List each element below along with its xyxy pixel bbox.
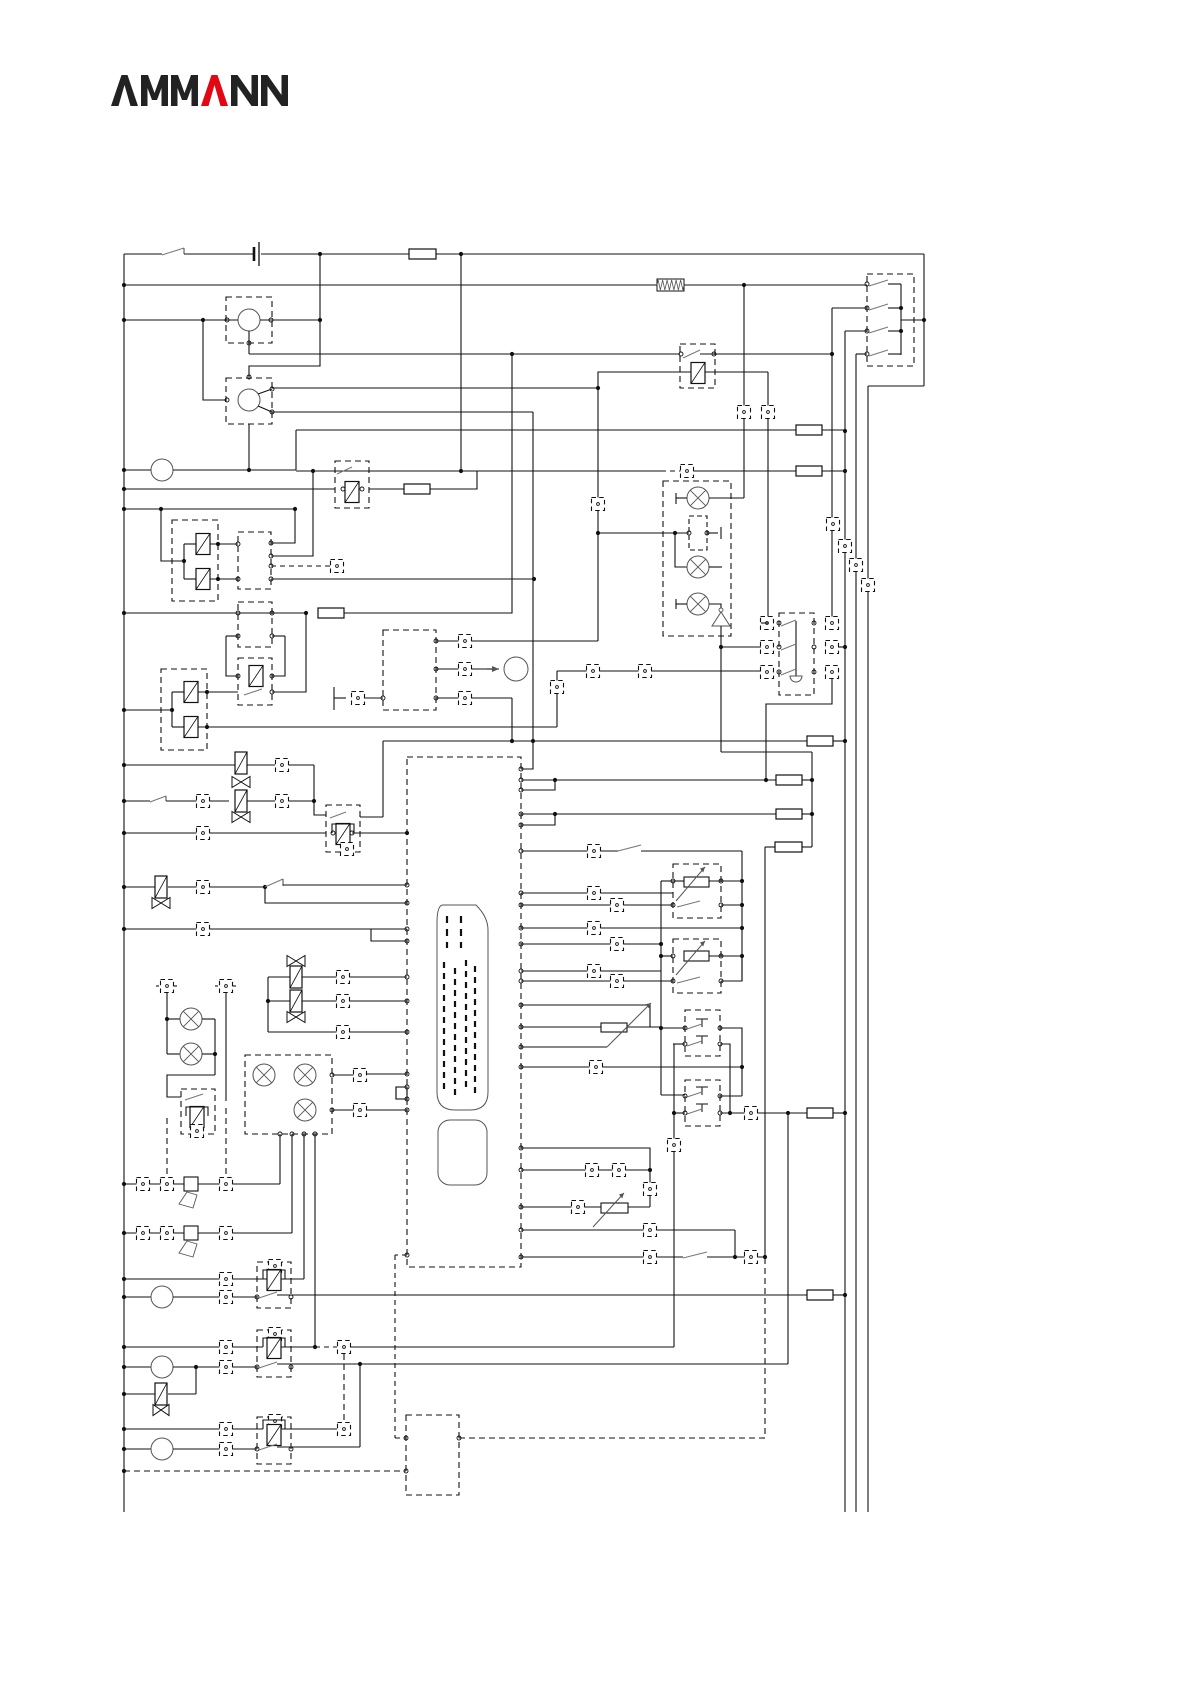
- wire ignition pin3 to bus B: [845, 330, 867, 332]
- wire row 354 to relay K2: [249, 353, 680, 355]
- wire ign contact stub y331: [888, 330, 901, 332]
- ECU connector pin columns: [446, 916, 448, 948]
- switch relay H contact: [259, 1292, 277, 1298]
- wire 727 up to row 671: [556, 671, 558, 727]
- node fuse junction: [459, 252, 463, 256]
- wire bus to starter: [124, 469, 151, 471]
- wire light row1 left: [761, 622, 768, 624]
- potentiometer R2: [676, 867, 709, 901]
- node ignition feed: [922, 318, 926, 322]
- wire bus A: [831, 308, 833, 623]
- wire 315 down: [314, 1134, 316, 1347]
- connector X bus B: [839, 540, 852, 553]
- wire box B out 556: [271, 471, 313, 556]
- wire ECU pair 814-825: [519, 812, 523, 816]
- switch light contact y672: [781, 669, 796, 675]
- wire T1b left: [673, 1043, 685, 1045]
- sender P4 circle: [151, 1438, 173, 1460]
- wire lamp H3 T-bar: [676, 603, 687, 605]
- wire starter to node: [173, 469, 296, 471]
- wire box B dashed out 566: [271, 565, 331, 567]
- node battery junction: [318, 252, 322, 256]
- connector X row471: [681, 465, 694, 478]
- wire 650 down: [649, 1170, 651, 1207]
- wire box B out 543 up to row 509: [271, 509, 295, 543]
- lamp H3: [687, 593, 709, 615]
- switch row 1257: [683, 1252, 707, 1258]
- lamp H7: [294, 1064, 316, 1086]
- wire flasher branch down to lamp H2: [675, 533, 687, 567]
- wire row 885 to ECU: [283, 884, 407, 886]
- connector jumper: [396, 1087, 407, 1099]
- relay H box: [257, 1262, 291, 1308]
- connector X 598-504: [592, 498, 605, 511]
- wire row 1295 long: [277, 1294, 807, 1296]
- potentiometer R3: [676, 941, 709, 975]
- connector X 337-566: [331, 560, 344, 573]
- switch relay D contact: [244, 689, 262, 695]
- connector X bus A: [827, 518, 840, 531]
- coil E1: [184, 682, 198, 703]
- wire ECU row 905: [519, 903, 523, 907]
- wire fuse F3 to bus B: [822, 470, 845, 472]
- node 354-512: [510, 352, 514, 356]
- wire battery row mid: [184, 253, 253, 255]
- wire Y4 to ECU: [302, 976, 407, 978]
- wire lamp H2 arrow: [709, 566, 722, 568]
- relay D box: [238, 658, 272, 705]
- wire 280 down: [279, 1134, 281, 1184]
- coil E2: [184, 717, 198, 738]
- switch relay K3 contact: [337, 467, 352, 474]
- wire row 1279: [124, 1278, 268, 1280]
- wire 598 lower: [597, 533, 599, 641]
- wire row 801: [124, 800, 150, 802]
- coil A2: [196, 569, 210, 590]
- flasher relay small box: [689, 516, 707, 550]
- wire 306 down to relay D switch: [272, 613, 306, 692]
- wire ignition pin2 to bus A: [832, 307, 867, 309]
- switch light contact y647: [781, 644, 796, 650]
- relay J coil: [267, 1425, 281, 1446]
- relay F coil: [336, 824, 350, 845]
- valve Y5 solenoid: [290, 990, 302, 1012]
- wire radio pin1 row 641: [436, 640, 598, 642]
- potentiometer R2 box: [673, 864, 721, 918]
- relay K1 circle: [238, 309, 260, 331]
- wire radio pin3 down to 741: [511, 698, 513, 741]
- wire row 1394 valve: [124, 1393, 155, 1395]
- relay K1 box: [226, 297, 272, 343]
- node 285-744: [742, 283, 746, 287]
- wire fuse F5 up to vertical 512: [344, 354, 512, 613]
- thermo contact T1b: [696, 1036, 708, 1044]
- relay F box: [326, 805, 360, 852]
- switch light contact y623: [781, 620, 796, 626]
- wire row 430: [296, 429, 796, 431]
- wire bus C: [855, 354, 857, 1512]
- wire 801 node to relay F: [314, 765, 326, 815]
- wire ign contact stub y308: [888, 307, 901, 309]
- wire row 509: [124, 508, 295, 510]
- wire ECU row 1047 wiper: [519, 1045, 523, 1049]
- valve Y4 bowtie top: [287, 956, 305, 967]
- relay G box: [181, 1089, 215, 1134]
- switch relay J contact: [259, 1444, 277, 1450]
- fuse F2: [796, 425, 822, 435]
- wire antenna to radio: [364, 697, 383, 699]
- relay K2 coil: [691, 363, 705, 384]
- wire fuse F2 to bus B: [822, 429, 845, 431]
- thermo switch box T1: [685, 1010, 720, 1056]
- wire ECU row 928: [519, 926, 523, 930]
- connector X bus C: [850, 559, 863, 572]
- fuse F1: [409, 249, 436, 259]
- wire K1 left node down to alternator: [203, 320, 226, 400]
- switch in pot box2: [677, 977, 700, 983]
- connector X 226-986: [220, 980, 233, 993]
- wire ECU row 1067: [519, 1065, 523, 1069]
- lamp H8: [294, 1099, 316, 1121]
- wire H7 out to ECU: [332, 1074, 354, 1076]
- wire 1347 solid right: [350, 1346, 674, 1348]
- thermo contact T2b: [696, 1104, 708, 1112]
- horn B2: [179, 1226, 198, 1257]
- wire ECU row 944: [519, 942, 523, 946]
- wire ECU row 971: [519, 969, 523, 973]
- wire radio pin2 to gauge: [436, 668, 496, 670]
- wire bracket left: [226, 635, 238, 637]
- wire T2a left: [661, 1094, 685, 1096]
- relay K2 box: [680, 344, 715, 388]
- valve Y4 solenoid: [290, 966, 302, 988]
- wire row 1449: [124, 1448, 151, 1450]
- dashed from box B1 right: [459, 1437, 765, 1439]
- potentiometer R5: [519, 1025, 523, 1029]
- switch relay I contact: [259, 1362, 277, 1368]
- wire alternator D+ output: [258, 389, 272, 394]
- wire box A coil bus: [183, 544, 185, 579]
- wire vertical 533: [532, 412, 534, 741]
- wire row 1364 long: [277, 1363, 788, 1365]
- wire ECU row 893: [519, 891, 523, 895]
- switch contact ign y308: [869, 304, 888, 310]
- connector X light L3: [761, 666, 774, 679]
- wire vertical 598 down: [597, 388, 599, 533]
- module box B1: [406, 1415, 459, 1495]
- wire ignition pin4 to bus C: [856, 353, 867, 355]
- valve Y6 solenoid: [155, 1383, 167, 1405]
- fuse F4: [404, 484, 430, 494]
- wire vertical 744: [743, 285, 745, 498]
- wire down to relay G: [167, 1075, 215, 1097]
- wire 735 down: [734, 1230, 736, 1257]
- wire relay I bracket: [263, 1338, 285, 1347]
- ECU pin loop 1087-1099: [396, 1087, 407, 1099]
- connector X relay F: [341, 843, 354, 856]
- potentiometer R4: [593, 1193, 628, 1227]
- gauge arrow: [487, 668, 499, 670]
- wire 721 to 812: [721, 751, 812, 753]
- wire lamp H1 T-bar: [676, 497, 687, 499]
- wire ECU row 1148: [519, 1146, 523, 1150]
- wire T2b right long: [720, 1112, 807, 1114]
- connector X relay G: [191, 1125, 204, 1138]
- switch relay G contact: [185, 1094, 203, 1100]
- valve Y3 bowtie: [152, 898, 170, 909]
- wire row 388: [272, 387, 598, 389]
- horn B1: [179, 1177, 198, 1208]
- wire ECU row 1170: [519, 1168, 523, 1172]
- contactor box A: [172, 520, 218, 601]
- wire relay H bracket: [263, 1270, 285, 1279]
- switch S1 main: [162, 248, 184, 255]
- wire row 887: [124, 886, 155, 888]
- wire jumper 929-941: [371, 929, 407, 941]
- radio box A2: [383, 630, 436, 710]
- wire battery to K1 node: [319, 254, 321, 320]
- node 598-533: [596, 531, 600, 535]
- wire lamp H1 feed: [709, 497, 744, 499]
- connector X light L2: [761, 641, 774, 654]
- valve Y1 solenoid: [235, 790, 247, 812]
- connector X 768-412: [762, 406, 775, 419]
- wire E1 to relay D: [198, 691, 238, 693]
- relay I coil: [267, 1338, 281, 1359]
- wire collector 742: [741, 851, 743, 980]
- wire K3 to fuse F4: [369, 488, 404, 490]
- dash stubs: [156, 985, 160, 987]
- switch relay K2 contact: [683, 350, 700, 358]
- wire vertical 461: [460, 254, 462, 471]
- wire bus B: [844, 331, 846, 1512]
- wire 509 down to coil box A feed: [161, 509, 184, 561]
- wire lamp pair loop: [166, 993, 168, 1054]
- valve Y6 bowtie: [153, 1405, 169, 1416]
- wire ign contact stub y354: [888, 353, 901, 355]
- dashed link left: [166, 1118, 168, 1178]
- valve Y2 solenoid: [235, 752, 247, 774]
- wire 533 branch to ECU pin: [521, 741, 533, 769]
- connector X light R1: [826, 617, 839, 630]
- connector X 744-412: [738, 406, 751, 419]
- valve pair bracket: [267, 977, 269, 1032]
- connector X light R3: [826, 666, 839, 679]
- node 461-471: [459, 469, 463, 473]
- control box B: [238, 532, 271, 589]
- valve Y3 solenoid: [155, 876, 167, 898]
- starter M1 circle: [151, 459, 173, 481]
- dashed ECU pin to box B1: [395, 1254, 407, 1256]
- light switch S3 box: [779, 613, 814, 695]
- wire T1b right: [720, 1044, 730, 1113]
- wire A2 out: [210, 578, 238, 580]
- battery G1: [254, 242, 259, 266]
- wire K2 output to bus A: [700, 353, 832, 355]
- wire ECU row 1230: [519, 1228, 523, 1232]
- wire row 489: [124, 488, 335, 490]
- connector X 557-687: [551, 681, 564, 694]
- valve Y5 bowtie: [287, 1012, 305, 1023]
- wire K2 coil right to vertical 768: [705, 371, 768, 373]
- node 470-249: [247, 468, 251, 472]
- wire fuse F4 jog up to row 471: [430, 471, 477, 489]
- lamp H6: [253, 1064, 275, 1086]
- wire row 929: [124, 928, 407, 930]
- wire light row2 right to bus B: [838, 646, 845, 648]
- wire horn row 1233: [124, 1232, 292, 1234]
- connector X 358-698: [352, 692, 365, 705]
- wire 765 fuse row 847: [765, 846, 775, 848]
- alternator G2 circle: [238, 389, 260, 411]
- ECU A1 box: [407, 757, 521, 1267]
- dashed link right: [225, 1108, 227, 1178]
- wire row 613: [124, 612, 238, 614]
- fuse F3: [796, 466, 822, 476]
- fuse F5: [318, 608, 344, 618]
- wire K1 node to alternator top: [249, 320, 320, 377]
- wire row 710: [124, 709, 172, 711]
- wire row 1347: [124, 1346, 263, 1348]
- wire right loop vertical: [923, 254, 925, 386]
- wire K1 to node: [260, 319, 320, 321]
- connector X bus D: [862, 579, 875, 592]
- potentiometer R3 box: [673, 939, 721, 993]
- logo AMMANN: [111, 75, 288, 106]
- relay J box: [257, 1417, 291, 1464]
- indicator lamp box: [663, 481, 731, 636]
- wire lamp H3 to triangle: [709, 604, 721, 608]
- wire left supply bus: [123, 254, 125, 1512]
- fuse F7: [807, 736, 833, 746]
- wire 1447 up to 1364: [359, 1364, 361, 1447]
- dashed wire row 1471: [124, 1470, 406, 1472]
- wire ignition common bar: [900, 284, 902, 355]
- ECU connector shell: [437, 905, 488, 1110]
- sensor triangle W1: [712, 608, 730, 626]
- wire ECU row 981: [519, 979, 523, 983]
- wire row 833: [124, 832, 326, 834]
- contactor box E: [161, 669, 207, 750]
- wire light row3 right down: [766, 678, 832, 780]
- switch S5 level: [265, 879, 283, 887]
- wire Y5 out: [302, 1000, 337, 1002]
- wire 887 branch row 903: [265, 887, 407, 903]
- relay I box: [257, 1330, 291, 1377]
- wire ECU pair 780-790: [519, 778, 523, 782]
- wire 721 down: [720, 647, 722, 752]
- wire alternator bottom to 470: [248, 424, 250, 470]
- connector X relay H: [269, 1260, 282, 1273]
- wire row 471 right: [694, 470, 796, 472]
- wire light row2 left: [721, 646, 761, 648]
- wire K1 bottom to starter row: [248, 331, 250, 343]
- wire battery row left: [124, 253, 162, 255]
- wire row 1297: [124, 1296, 151, 1298]
- fuse F6: [775, 842, 802, 852]
- lamp H2: [687, 556, 709, 578]
- switch contact ign y331: [869, 327, 888, 333]
- wire box B out 579: [271, 578, 534, 580]
- wire vertical 661: [660, 881, 662, 1095]
- thermo contact T1a: [696, 1019, 708, 1027]
- wire bus to K1: [124, 319, 238, 321]
- fuse F11: [807, 1108, 833, 1118]
- fuse F8: [776, 775, 802, 785]
- wire triangle down: [720, 626, 722, 647]
- wire through box C: [238, 612, 272, 614]
- switch S4: [150, 796, 166, 802]
- alternator G2 box: [226, 378, 272, 424]
- wire row 471 continues: [296, 470, 661, 472]
- wire row 1367: [124, 1366, 151, 1368]
- wire vertical 812: [811, 752, 813, 847]
- valve Y2 bowtie: [232, 777, 250, 788]
- gauge P1 circle: [504, 657, 528, 681]
- wire ECU row 1257: [519, 1255, 523, 1259]
- thermo contact T2a: [696, 1087, 708, 1095]
- wire 470 jog up to row 430: [295, 430, 297, 470]
- connector X light R2: [826, 641, 839, 654]
- wire battery row to fuse: [261, 253, 409, 255]
- relay K3 coil: [345, 482, 359, 503]
- connector X 167-986: [161, 980, 174, 993]
- ECU lower connector: [438, 1120, 487, 1185]
- wire T2b left: [674, 1112, 685, 1114]
- connector X relay J: [269, 1415, 282, 1428]
- light switch common bar: [795, 621, 797, 676]
- resistor R1 glow plug: [657, 279, 684, 291]
- wire bus D: [867, 386, 869, 1512]
- lamp H5: [180, 1043, 202, 1065]
- wire row 285 right: [684, 284, 867, 286]
- wire pot1 feed: [661, 880, 673, 882]
- relay G coil: [190, 1107, 204, 1128]
- valve Y1 bowtie: [232, 812, 250, 823]
- wire row 285 left: [124, 284, 657, 286]
- coil A1: [196, 534, 210, 555]
- relay H coil: [267, 1270, 281, 1291]
- sender P2 circle: [151, 1286, 173, 1308]
- wire ECU row 769 pin: [519, 767, 523, 771]
- wire pot2 switch out: [721, 956, 742, 981]
- antenna symbol: [333, 687, 335, 710]
- wire 304 down: [303, 1134, 305, 1279]
- wire box E feed bar: [171, 692, 173, 727]
- wire relay F switch to 383: [360, 816, 383, 818]
- wire right loop horizontal: [868, 385, 924, 387]
- wire T1a right: [720, 1028, 742, 1096]
- wire ECU row 1005: [519, 1003, 523, 1007]
- lamp box bottom pins: [278, 1132, 282, 1136]
- wire light row3 left: [557, 670, 761, 672]
- wire vertical 768: [767, 372, 769, 623]
- module box C: [238, 602, 272, 647]
- ignition switch S2 box: [867, 274, 914, 366]
- connector X 674-1145: [668, 1139, 681, 1152]
- switch contact ign y354: [869, 350, 888, 356]
- wire 215 down: [214, 1019, 216, 1075]
- wire 292 down: [291, 1134, 293, 1233]
- wire dashes row 471: [661, 470, 681, 472]
- wire row 1429: [124, 1428, 263, 1430]
- thermo switch box T2: [685, 1080, 720, 1126]
- wire box C out: [272, 612, 306, 614]
- wire 226 down: [225, 993, 227, 1101]
- wire relay G bracket: [186, 1107, 208, 1116]
- wire row 412: [272, 411, 533, 413]
- relay K3 box: [335, 461, 369, 508]
